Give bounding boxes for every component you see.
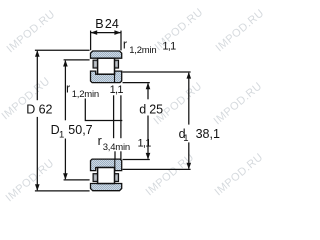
svg-text:50,7: 50,7 (68, 123, 92, 137)
svg-text:1: 1 (183, 133, 188, 144)
svg-text:d: d (139, 102, 146, 116)
svg-text:IMPOD.RU: IMPOD.RU (5, 8, 58, 55)
svg-text:r: r (98, 134, 102, 148)
svg-text:38,1: 38,1 (196, 127, 220, 141)
svg-text:IMPOD.RU: IMPOD.RU (4, 157, 57, 204)
svg-text:25: 25 (149, 102, 163, 116)
svg-text:1,1: 1,1 (110, 84, 124, 96)
svg-text:62: 62 (39, 103, 53, 117)
svg-text:1,1: 1,1 (162, 40, 176, 52)
svg-text:1,2min: 1,2min (129, 45, 156, 56)
svg-text:1,2min: 1,2min (72, 89, 99, 100)
svg-text:IMPOD.RU: IMPOD.RU (212, 80, 265, 127)
svg-text:r: r (123, 37, 127, 51)
svg-text:24: 24 (105, 17, 119, 31)
svg-text:IMPOD.RU: IMPOD.RU (153, 6, 206, 53)
svg-text:1,1: 1,1 (138, 137, 152, 149)
svg-text:IMPOD.RU: IMPOD.RU (214, 7, 267, 54)
svg-text:1: 1 (59, 129, 64, 140)
svg-text:r: r (66, 81, 70, 95)
svg-text:IMPOD.RU: IMPOD.RU (213, 151, 266, 198)
svg-text:D: D (26, 103, 35, 117)
svg-text:3,4min: 3,4min (103, 142, 130, 153)
svg-text:B: B (95, 17, 103, 31)
